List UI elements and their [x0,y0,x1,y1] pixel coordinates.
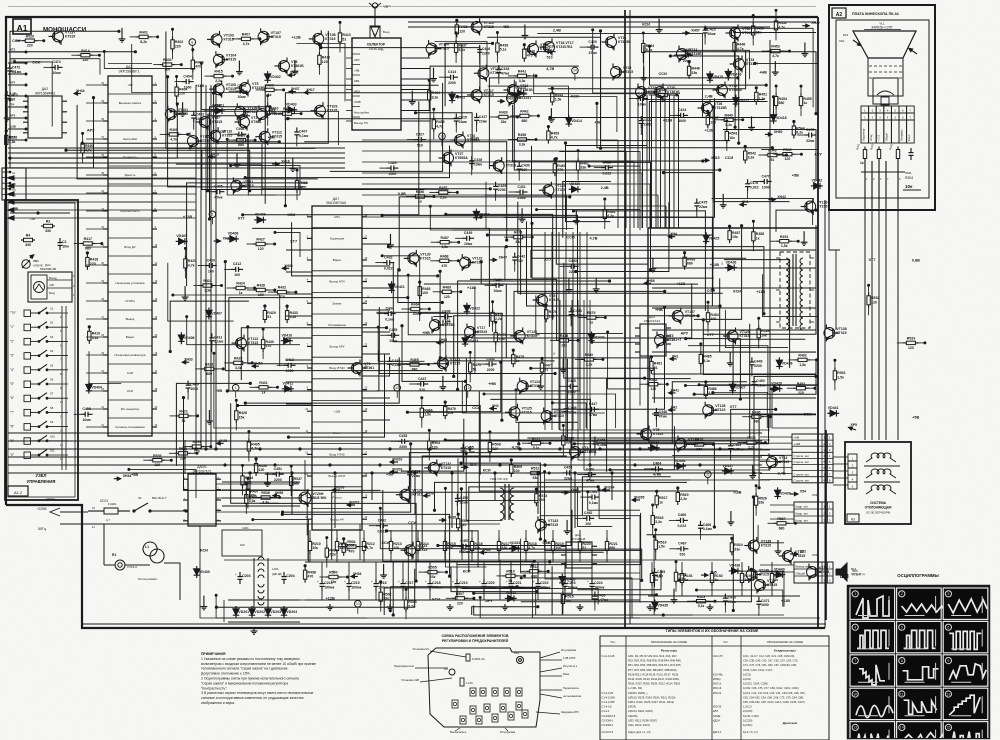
wire [703,320,816,375]
svg-text:R480: R480 [585,353,593,357]
wire [597,103,773,147]
svg-text:3,3к: 3,3к [249,499,256,503]
svg-text:330: 330 [25,243,31,247]
resistor R524 with node [731,539,733,543]
svg-text:1(R214, R222, R223): 1(R214, R222, R223) [628,709,653,713]
svg-text:+5В: +5В [131,473,138,477]
wire [379,307,555,373]
wire [519,422,579,444]
svg-text:R304: R304 [905,176,913,180]
svg-text:18: 18 [155,388,158,391]
capacitor C440 [492,284,497,286]
svg-text:С434: С434 [386,306,394,310]
svg-text:1(R105, R133, R134, R154, R211: 1(R105, R133, R134, R154, R211, R215) [628,695,676,699]
svg-text:16: 16 [365,473,368,476]
diode VD417 [735,95,737,107]
wire [229,298,408,391]
wire [514,80,720,170]
transistor VT107 [258,31,269,42]
svg-text:R490: R490 [752,410,760,414]
svg-text:11: 11 [155,262,158,265]
transistor VT133 [535,519,546,530]
net arrow ХN202 [390,461,398,463]
svg-text:R539: R539 [153,454,161,458]
svg-text:КТ315: КТ315 [549,298,559,302]
diode VD412 [451,91,453,103]
diode VD407 [208,308,210,320]
svg-text:R415: R415 [214,70,222,74]
net arrow [272,163,279,165]
svg-text:КТ315: КТ315 [759,573,769,577]
svg-text:680: 680 [206,372,212,376]
ground [752,465,754,473]
resistor R219 [552,538,554,542]
svg-text:С204: С204 [286,574,294,578]
svg-text:R302: R302 [869,143,875,151]
svg-text:+5В: +5В [386,473,393,477]
svg-text:5: 5 [901,626,903,630]
svg-text:Установка 12В: Установка 12В [401,678,419,682]
svg-text:S2: S2 [50,321,54,325]
svg-text:11: 11 [900,692,904,696]
wire [10,52,135,169]
svg-text:1: 1 [829,565,831,569]
transistor VT139 [805,201,816,212]
diode VD403 [285,109,297,111]
svg-text:680: 680 [294,481,300,485]
wires to connector X52 [760,564,794,566]
diode VD432 [505,597,517,599]
svg-text:КТ315: КТ315 [761,544,771,548]
net arrow [437,342,444,344]
wire [438,438,571,546]
capacitor C437 [416,383,421,385]
svg-text:1000: 1000 [184,85,192,89]
svg-text:Кадр. кат: Кадр. кат [796,519,809,523]
resistor R480 [581,358,585,360]
svg-text:Допустимое отклонение ± 15%.: Допустимое отклонение ± 15%. [201,672,251,676]
resistor R508 [489,439,491,443]
svg-text:1к: 1к [860,161,864,165]
svg-text:!: ! [333,569,334,574]
wire [552,307,665,409]
net arrow ХN203 [390,471,398,473]
svg-text:R479: R479 [587,311,595,315]
diode VD406 [180,332,182,344]
wire [484,394,616,428]
wire [643,52,816,114]
resistor R506 with node [457,515,459,519]
svg-text:КТ315: КТ315 [555,188,565,192]
wire [10,98,94,168]
svg-text:1: 1 [829,505,831,509]
resistor R502 [380,589,382,593]
resistor R150 [651,570,653,574]
wire [466,454,502,521]
wire [227,139,300,195]
capacitor C446 [565,404,567,409]
wire [532,146,747,258]
svg-text:20: 20 [365,387,368,390]
fuse FU001 [466,654,470,661]
ground [411,91,413,99]
diode VD420 [569,188,581,190]
svg-text:ХТ7: ХТ7 [238,216,245,220]
wire [332,492,581,559]
svg-text:Выход: Выход [49,276,57,280]
diode VD431 [509,547,521,549]
transistor VT3 [655,335,666,346]
wire [594,443,715,527]
resistor R211 [336,538,338,542]
resistor R458 [514,139,518,141]
ground [709,604,711,607]
wire [201,63,257,109]
capacitor C477 [760,181,765,183]
svg-text:+5В: +5В [49,283,54,287]
capacitor C430 [518,162,520,167]
capacitor C447 [587,408,592,410]
diode VD440 [773,574,785,576]
ground [208,410,210,418]
svg-text:Общий: Общий [885,132,888,141]
svg-text:ДА2: ДА2 [42,87,49,91]
svg-text:1(Др1, Др2, L1, L3): 1(Др1, Др2, L1, L3) [628,730,651,734]
wire [289,354,385,438]
resistor R464 [407,308,411,310]
svg-text:R2: R2 [46,220,51,224]
svg-text:220: 220 [175,44,181,48]
connector arrows [849,427,857,430]
resistor R152 [711,570,713,574]
svg-text:100: 100 [565,599,571,603]
svg-text:120: 120 [444,295,450,299]
svg-text:R23, R25, R26, R28-R36, R39-R4: R23, R25, R26, R28-R36, R39-R44, R46-R49… [628,659,682,663]
ground [568,279,570,287]
transistor VT9 [352,363,363,374]
svg-text:С419: С419 [545,44,553,48]
resistor R487 with node [729,227,731,231]
svg-text:+НВ: +НВ [655,308,663,312]
wire [168,77,307,187]
long top wires [408,21,816,23]
svg-text:4,7к: 4,7к [251,447,258,451]
svg-text:R527: R527 [777,517,785,521]
svg-text:1(С301): 1(С301) [743,723,753,727]
svg-text:ХН5: ХН5 [710,571,717,575]
svg-text:КТ361Б: КТ361Б [291,64,304,68]
wire [694,226,742,320]
svg-text:С466: С466 [678,513,686,517]
layout callout lines [430,651,466,657]
svg-text:1000: 1000 [190,387,198,391]
wire [330,83,443,171]
svg-text:+12В: +12В [705,128,714,132]
resistor R539 [149,459,153,461]
svg-text:Х54: Х54 [812,493,818,497]
ground [329,604,331,607]
svg-text:КТ315: КТ315 [412,493,422,497]
ground [449,604,451,607]
svg-text:1000: 1000 [389,172,397,176]
svg-text:24: 24 [365,300,368,303]
svg-text:ХН59: ХН59 [275,491,284,495]
svg-text:SАМЕ: SАМЕ [713,714,721,718]
svg-text:К50-12: К50-12 [713,682,722,686]
net arrow ХN205 [632,499,640,501]
wire [562,595,656,615]
svg-text:ХН34: ХН34 [76,89,85,93]
resistor R451 with node [755,89,757,93]
capacitor С217 [402,579,404,584]
capacitor C453 [397,440,402,442]
wire [548,50,746,89]
svg-text:10мк: 10мк [493,289,501,293]
svg-text:1 Указанные на схеме режимы по: 1 Указанные на схеме режимы по постоянно… [201,657,300,661]
wire [422,456,567,550]
resistor R459 with node [547,128,549,132]
svg-text:ХР5: ХР5 [851,423,858,427]
wire [582,477,670,515]
svg-text:С418: С418 [501,67,509,71]
capacitor C467 [676,548,681,550]
wire [104,52,195,69]
svg-text:51: 51 [267,315,271,319]
svg-text:С1-4-0,25Р: С1-4-0,25Р [602,700,616,704]
ground [804,43,806,51]
wire [399,197,570,270]
svg-text:VD404: VD404 [91,386,102,390]
transistor VT27 [443,153,454,164]
wire [514,291,665,337]
svg-text:1(С60, С68, С75, С77, С84, С10: 1(С60, С68, С75, С77, С84, С102, С201, С… [743,686,799,690]
svg-text:120: 120 [459,29,465,33]
transistor VT16,VT17 [544,42,555,53]
ground [292,157,294,165]
resistor R504 [428,437,430,441]
svg-text:1(С216): 1(С216) [743,709,753,713]
transistor VT10 [507,93,518,104]
diode VD408 [227,238,239,240]
resistor R302 [878,147,880,150]
svg-text:Настройка: Настройка [354,111,369,115]
wire [200,526,820,618]
capacitor C414 [446,76,451,78]
transistor VT126 [541,411,552,422]
svg-text:ПЧ: ПЧ [10,103,14,107]
wire [420,313,502,420]
svg-text:1(R303, R209) △: 1(R303, R209) △ [628,691,649,695]
capacitor C418 [498,65,500,70]
svg-text:КТ3157: КТ3157 [746,62,758,66]
svg-text:VD425: VD425 [709,236,720,240]
svg-text:22мк: 22мк [479,119,487,123]
net arrow [669,392,676,394]
svg-text:VD435: VD435 [657,604,668,608]
svg-text:1,5к: 1,5к [759,97,766,101]
ground [504,604,506,607]
wire [401,419,464,471]
svg-text:КТ361: КТ361 [364,366,374,370]
resistor R509 with node [510,461,512,465]
node number [705,471,712,478]
wire [304,142,507,240]
resistor R416 [296,177,298,181]
wire [532,223,714,278]
resistor R429 with node [264,307,266,311]
transistor VT15 [528,44,539,55]
svg-text:10: 10 [155,244,158,247]
connector X54 3-pin table [794,502,833,523]
svg-text:Установка НЧ: Установка НЧ [412,647,429,651]
transistor VT130 [400,489,411,500]
wire [208,116,250,191]
fuse 1,16A [460,678,464,686]
svg-text:Опознавание: Опознавание [328,323,346,327]
svg-text:7: 7 [854,659,856,663]
diode VD409 [254,219,266,221]
capacitor C457 [459,545,464,547]
svg-text:9: 9 [947,659,949,663]
svg-text:R432: R432 [278,286,286,290]
wire [699,385,818,428]
capacitor С222 [537,579,539,584]
svg-text:С470: С470 [728,596,736,600]
resistor R440 with node [523,46,525,50]
svg-text:18: 18 [365,430,368,433]
svg-text:15к: 15к [692,71,698,75]
svg-text:R19: R19 [843,33,849,37]
svg-text:"ЛГ": "ЛГ" [383,4,391,9]
svg-text:ЭКР1087ЕУ1: ЭКР1087ЕУ1 [192,470,212,474]
capacitor C471 [758,597,760,602]
svg-text:"7": "7" [10,410,14,414]
svg-text:680: 680 [779,526,785,530]
wire [521,578,632,618]
svg-text:R417: R417 [84,237,92,241]
wire [187,183,308,286]
svg-text:470: 470 [195,65,201,69]
wire [755,63,818,103]
net arrow [480,552,487,554]
wire [521,539,640,573]
resistor R404 [176,84,178,88]
svg-text:19: 19 [365,408,368,411]
svg-text:R469: R469 [443,285,451,289]
svg-text:"6": "6" [10,396,14,400]
svg-text:220: 220 [696,447,702,451]
svg-text:Вход: Вход [383,30,390,34]
svg-text:С460: С460 [586,467,594,471]
regulator knob R61 [517,657,524,664]
svg-text:14: 14 [573,69,577,73]
svg-text:6: 6 [902,116,904,120]
wire [245,146,449,178]
net arrow [802,25,809,27]
ground [774,61,776,69]
svg-text:10: 10 [92,506,96,510]
resistor R497 [247,486,249,490]
transistor VT113 [236,338,247,349]
svg-text:С403: С403 [237,84,245,88]
svg-text:ХН1: ХН1 [672,354,679,358]
svg-text:0,5ГД-17: 0,5ГД-17 [851,572,862,576]
svg-text:R494: R494 [193,440,201,444]
svg-text:VD420: VD420 [569,182,580,186]
net arrow [114,478,121,480]
diode VD413 [515,92,527,94]
wire [513,105,703,161]
net arrow ХN206 [332,489,340,491]
svg-text:6: 6 [902,109,904,113]
vertical bundle right of IC D7 [544,232,546,430]
resistor R442 [516,115,520,117]
svg-text:РЕГУЛИРОВКИ И ПРЕДОХРАНИТЕЛЕЙ: РЕГУЛИРОВКИ И ПРЕДОХРАНИТЕЛЕЙ [442,639,509,643]
svg-text:ХТ4: ХТ4 [10,81,16,85]
diode VD439 [777,487,779,499]
svg-text:0,022: 0,022 [603,171,612,175]
svg-text:10 МГц: 10 МГц [125,299,135,303]
svg-text:С1-4-0,5: С1-4-0,5 [602,705,613,709]
svg-text:4,7к: 4,7к [551,136,558,140]
wire [430,206,458,230]
svg-text:5: 5 [894,109,896,113]
capacitor C461 [587,496,592,498]
svg-text:+НВ: +НВ [794,436,800,440]
resistor R401 [136,36,140,38]
horizontal IF strip buses [362,139,618,141]
wire [556,159,648,265]
resistor R402 [172,36,174,40]
wire [231,403,279,503]
svg-text:"0": "0" [10,453,14,457]
resistor R518 [652,512,654,516]
resistor R456 [412,196,416,198]
svg-text:0,022: 0,022 [384,266,393,270]
net arrow [214,240,221,242]
net arrow [670,358,677,360]
svg-text:С414: С414 [448,70,456,74]
svg-text:7: 7 [887,177,889,181]
svg-text:5,1к: 5,1к [698,604,705,608]
svg-text:VD414: VD414 [571,119,582,123]
diode VD436 [674,465,686,467]
resistor R452 [775,17,777,21]
transformer T3 windings [786,258,789,270]
svg-text:1: 1 [864,109,866,113]
transistor VT11 [606,37,617,48]
svg-text:3,3к: 3,3к [290,315,297,319]
wire [462,589,598,605]
resistor R523 [693,600,697,602]
resistor R447 with node [707,112,709,116]
svg-text:VD437: VD437 [723,464,734,468]
wire [393,562,550,615]
svg-text:VD418: VD418 [776,116,787,120]
svg-text:С431: С431 [517,185,525,189]
svg-text:2200: 2200 [644,122,652,126]
wire [688,346,768,395]
wire [733,339,805,385]
svg-text:2: 2 [873,177,875,181]
svg-text:Коррекция: Коррекция [330,237,345,241]
svg-text:С453: С453 [399,434,407,438]
wire [416,113,473,170]
ground [294,60,296,68]
transistor VT108 [313,33,324,44]
resistor R475 with node [512,351,514,355]
svg-text:С95, С99-С92, С96, С100, С214,: С95, С99-С92, С96, С100, С214, С218, С22… [743,700,805,704]
